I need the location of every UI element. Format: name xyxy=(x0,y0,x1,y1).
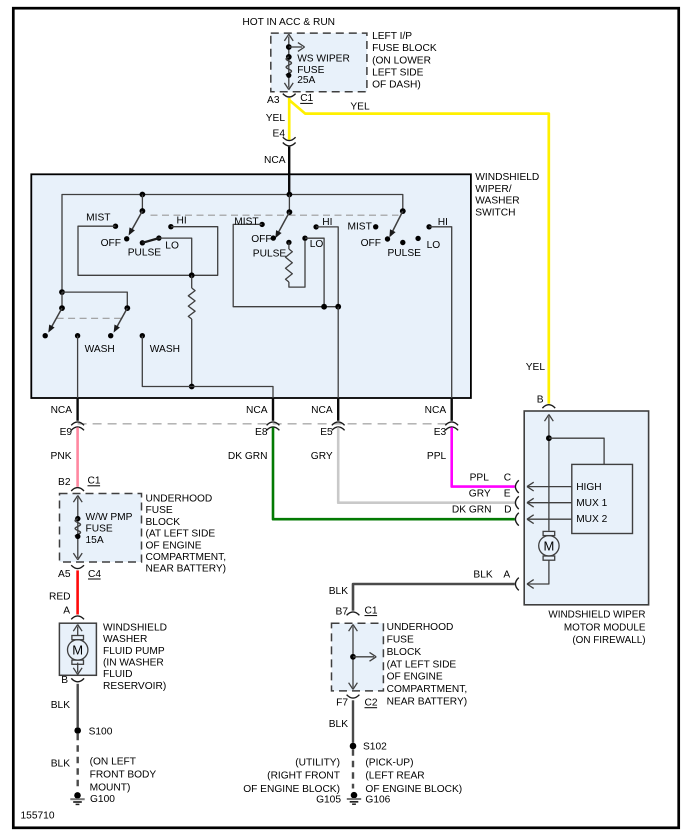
svg-text:A3: A3 xyxy=(267,95,280,106)
svg-text:MIST: MIST xyxy=(86,212,110,223)
svg-text:LO: LO xyxy=(165,240,179,251)
svg-text:MIST: MIST xyxy=(347,221,371,232)
svg-text:G100: G100 xyxy=(90,794,115,805)
svg-text:BLK: BLK xyxy=(329,719,348,730)
svg-text:BLK: BLK xyxy=(329,586,348,597)
svg-text:GRY: GRY xyxy=(469,489,491,500)
svg-text:WASH: WASH xyxy=(150,344,180,355)
svg-text:WIPER/: WIPER/ xyxy=(475,184,511,195)
svg-text:PNK: PNK xyxy=(51,451,72,462)
svg-text:(ON FIREWALL): (ON FIREWALL) xyxy=(572,635,645,646)
svg-text:B: B xyxy=(537,395,544,406)
svg-text:NEAR BATTERY): NEAR BATTERY) xyxy=(387,697,468,708)
svg-text:E: E xyxy=(504,489,511,500)
svg-text:MOUNT): MOUNT) xyxy=(90,782,131,793)
svg-text:MUX 2: MUX 2 xyxy=(576,514,607,525)
svg-text:WINDSHIELD: WINDSHIELD xyxy=(103,622,167,633)
svg-text:YEL: YEL xyxy=(526,362,546,373)
svg-text:BLOCK: BLOCK xyxy=(387,647,422,658)
svg-text:M: M xyxy=(72,643,83,658)
svg-text:LEFT I/P: LEFT I/P xyxy=(372,31,412,42)
svg-text:DK GRN: DK GRN xyxy=(452,504,492,515)
svg-text:NCA: NCA xyxy=(425,405,447,416)
svg-text:(AT LEFT SIDE: (AT LEFT SIDE xyxy=(387,659,457,670)
svg-text:FLUID: FLUID xyxy=(103,669,132,680)
svg-text:FUSE: FUSE xyxy=(146,505,173,516)
svg-text:G105: G105 xyxy=(316,794,341,805)
svg-text:LO: LO xyxy=(427,240,441,251)
svg-text:B2: B2 xyxy=(58,477,71,488)
svg-text:D: D xyxy=(504,504,511,515)
svg-text:NEAR BATTERY): NEAR BATTERY) xyxy=(146,564,227,575)
svg-text:E3: E3 xyxy=(434,427,447,438)
svg-text:UNDERHOOD: UNDERHOOD xyxy=(387,622,454,633)
svg-text:HOT IN ACC & RUN: HOT IN ACC & RUN xyxy=(242,17,335,28)
svg-text:MOTOR MODULE: MOTOR MODULE xyxy=(564,622,646,633)
svg-text:WS WIPER: WS WIPER xyxy=(297,54,350,65)
svg-text:W/W PMP: W/W PMP xyxy=(86,512,133,523)
svg-text:OF ENGINE BLOCK): OF ENGINE BLOCK) xyxy=(365,784,462,795)
svg-text:PULSE: PULSE xyxy=(388,248,422,259)
svg-text:(ON LOWER: (ON LOWER xyxy=(372,55,431,66)
svg-text:G106: G106 xyxy=(365,794,390,805)
svg-text:E5: E5 xyxy=(320,427,333,438)
svg-text:B7: B7 xyxy=(336,606,349,617)
svg-text:HI: HI xyxy=(438,217,448,228)
svg-text:OF ENGINE: OF ENGINE xyxy=(387,672,443,683)
svg-text:BLOCK: BLOCK xyxy=(146,517,181,528)
svg-text:WASHER: WASHER xyxy=(475,196,519,207)
svg-text:(PICK-UP): (PICK-UP) xyxy=(365,758,413,769)
svg-text:NCA: NCA xyxy=(51,405,73,416)
svg-text:YEL: YEL xyxy=(266,113,286,124)
svg-text:RESERVOIR): RESERVOIR) xyxy=(103,681,166,692)
svg-text:(ON LEFT: (ON LEFT xyxy=(90,756,136,767)
svg-text:NCA: NCA xyxy=(246,405,268,416)
svg-text:(AT LEFT SIDE: (AT LEFT SIDE xyxy=(146,529,216,540)
svg-text:C1: C1 xyxy=(300,93,313,104)
svg-text:LO: LO xyxy=(310,239,324,250)
svg-text:MUX 1: MUX 1 xyxy=(576,498,607,509)
svg-text:FUSE: FUSE xyxy=(86,524,113,535)
svg-text:E8: E8 xyxy=(255,427,268,438)
svg-text:15A: 15A xyxy=(86,535,104,546)
svg-text:WINDSHIELD: WINDSHIELD xyxy=(475,172,539,183)
svg-text:WASHER: WASHER xyxy=(103,634,147,645)
svg-text:OFF: OFF xyxy=(101,238,121,249)
svg-text:(LEFT REAR: (LEFT REAR xyxy=(365,771,424,782)
svg-text:BLK: BLK xyxy=(51,700,70,711)
svg-text:MIST: MIST xyxy=(234,216,258,227)
svg-text:OF ENGINE BLOCK): OF ENGINE BLOCK) xyxy=(243,784,340,795)
svg-text:PULSE: PULSE xyxy=(128,248,162,259)
svg-text:GRY: GRY xyxy=(311,451,333,462)
svg-text:C1: C1 xyxy=(365,605,378,616)
svg-text:FUSE BLOCK: FUSE BLOCK xyxy=(372,43,437,54)
svg-text:NCA: NCA xyxy=(264,155,286,166)
svg-text:PPL: PPL xyxy=(427,451,447,462)
svg-text:COMPARTMENT,: COMPARTMENT, xyxy=(387,684,468,695)
svg-text:OFF: OFF xyxy=(251,234,271,245)
svg-text:M: M xyxy=(543,538,554,553)
svg-text:A: A xyxy=(503,569,510,580)
svg-text:NCA: NCA xyxy=(311,405,333,416)
svg-text:HI: HI xyxy=(322,217,332,228)
svg-text:YEL: YEL xyxy=(350,102,370,113)
svg-text:E9: E9 xyxy=(60,427,73,438)
svg-text:FUSE: FUSE xyxy=(387,635,414,646)
svg-text:S100: S100 xyxy=(89,726,113,737)
svg-text:F7: F7 xyxy=(336,698,348,709)
svg-text:(UTILITY): (UTILITY) xyxy=(295,758,340,769)
svg-text:C2: C2 xyxy=(365,698,378,709)
svg-text:A5: A5 xyxy=(58,569,71,580)
svg-text:OF ENGINE: OF ENGINE xyxy=(146,540,202,551)
svg-text:HIGH: HIGH xyxy=(576,482,601,493)
svg-text:C1: C1 xyxy=(88,476,101,487)
svg-text:C4: C4 xyxy=(88,569,101,580)
svg-text:(IN WASHER: (IN WASHER xyxy=(103,658,164,669)
svg-text:OF DASH): OF DASH) xyxy=(372,80,421,91)
svg-text:OFF: OFF xyxy=(361,238,381,249)
svg-text:155710: 155710 xyxy=(21,811,55,822)
svg-text:B: B xyxy=(61,675,68,686)
svg-text:S102: S102 xyxy=(363,742,387,753)
svg-text:SWITCH: SWITCH xyxy=(475,207,515,218)
svg-text:HI: HI xyxy=(177,216,187,227)
svg-text:BLK: BLK xyxy=(51,759,70,770)
svg-text:FRONT BODY: FRONT BODY xyxy=(90,769,157,780)
svg-text:WASH: WASH xyxy=(85,344,115,355)
svg-text:PPL: PPL xyxy=(470,473,490,484)
svg-text:RED: RED xyxy=(49,592,71,603)
svg-text:(RIGHT FRONT: (RIGHT FRONT xyxy=(267,771,340,782)
svg-text:FLUID PUMP: FLUID PUMP xyxy=(103,646,165,657)
svg-text:BLK: BLK xyxy=(473,569,492,580)
svg-text:LEFT SIDE: LEFT SIDE xyxy=(372,67,424,78)
svg-text:UNDERHOOD: UNDERHOOD xyxy=(146,494,213,505)
svg-text:WINDSHIELD WIPER: WINDSHIELD WIPER xyxy=(548,610,645,621)
svg-text:25A: 25A xyxy=(297,75,315,86)
svg-text:COMPARTMENT,: COMPARTMENT, xyxy=(146,552,227,563)
svg-text:C: C xyxy=(504,473,511,484)
svg-text:DK GRN: DK GRN xyxy=(228,451,268,462)
svg-text:A: A xyxy=(63,606,70,617)
svg-text:PULSE: PULSE xyxy=(253,249,287,260)
